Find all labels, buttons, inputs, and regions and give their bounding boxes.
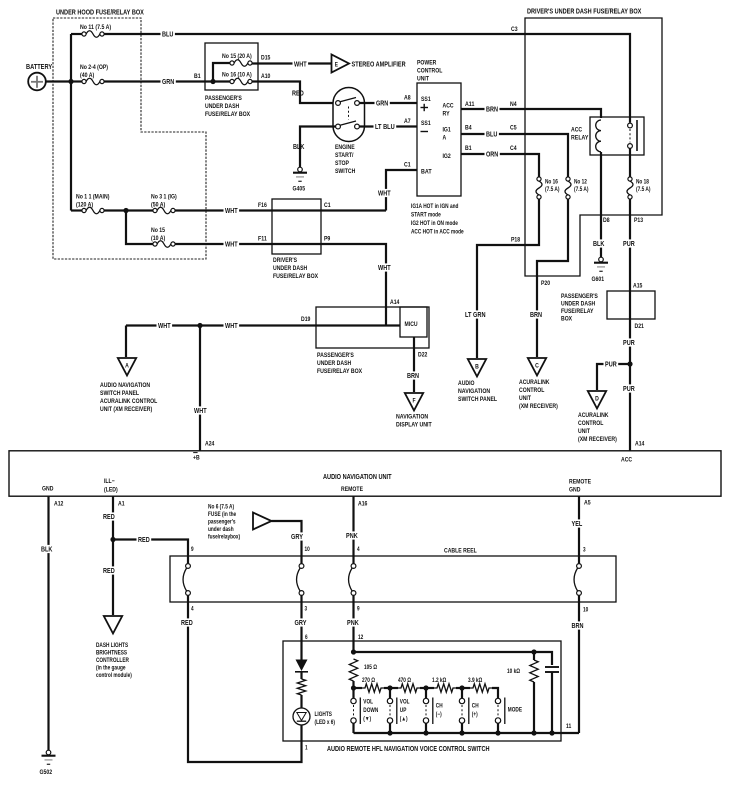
label BRN acc bbox=[485, 105, 500, 114]
svg-text:GRY: GRY bbox=[295, 620, 307, 627]
svg-text:A14: A14 bbox=[635, 441, 645, 448]
svg-text:FUSE/RELAY BOX: FUSE/RELAY BOX bbox=[273, 273, 319, 280]
cable reel connector pin 9-4 bbox=[183, 556, 190, 602]
off-page connector F bbox=[405, 393, 423, 411]
svg-text:UNIT: UNIT bbox=[578, 428, 590, 435]
wire junction up to fuse No 15 (20A) bbox=[213, 63, 230, 82]
ground G502 bbox=[40, 750, 56, 776]
svg-text:FUSE/RELAY: FUSE/RELAY bbox=[561, 308, 594, 315]
svg-text:A15: A15 bbox=[633, 283, 643, 290]
node PUR junction bbox=[627, 361, 632, 366]
wire relay coil to G601 bbox=[600, 152, 602, 257]
off-page connector A bbox=[118, 358, 136, 376]
wire BRN cable reel to switch box bbox=[578, 602, 580, 733]
wire RED A10 to engine switch bbox=[252, 82, 336, 104]
svg-text:MODE: MODE bbox=[508, 708, 522, 714]
label navigation display unit bbox=[396, 414, 432, 429]
wire YEL A5 to cable reel pin 3 bbox=[578, 496, 580, 556]
label pin 12 bbox=[358, 635, 364, 641]
svg-text:C4: C4 bbox=[510, 145, 517, 152]
label WHT left bbox=[157, 321, 173, 330]
svg-text:P18: P18 bbox=[511, 237, 520, 244]
label AUDIO NAVIGATION UNIT bbox=[323, 474, 392, 481]
pin ACC RY bbox=[443, 103, 454, 118]
resistor R 10 kohm bbox=[507, 660, 538, 682]
pin SS1 - bbox=[421, 120, 431, 132]
svg-text:WHT: WHT bbox=[225, 242, 238, 249]
label RED branch bbox=[137, 535, 152, 544]
label RED a1 lower bbox=[102, 566, 117, 575]
svg-text:SS1: SS1 bbox=[421, 120, 431, 127]
svg-text:D8: D8 bbox=[603, 217, 610, 224]
svg-text:G601: G601 bbox=[592, 276, 605, 283]
svg-text:(−): (−) bbox=[436, 712, 442, 718]
label D21 bbox=[635, 323, 645, 330]
switch CH minus bbox=[423, 698, 442, 725]
svg-text:10: 10 bbox=[305, 547, 311, 553]
label REMOTE bbox=[341, 486, 364, 493]
svg-text:D19: D19 bbox=[301, 316, 311, 323]
svg-text:SWITCH PANEL: SWITCH PANEL bbox=[100, 390, 139, 397]
svg-text:(▲): (▲) bbox=[400, 717, 408, 723]
svg-text:(7.5 A): (7.5 A) bbox=[574, 187, 589, 193]
svg-text:UNDER DASH: UNDER DASH bbox=[205, 103, 239, 110]
svg-text:NAVIGATION: NAVIGATION bbox=[458, 388, 490, 395]
wire junction down to fuse No 15 bbox=[126, 211, 153, 245]
svg-text:PUR: PUR bbox=[623, 340, 635, 347]
wire bus to fuse No 2-4 bbox=[71, 80, 82, 82]
svg-text:A5: A5 bbox=[584, 500, 591, 507]
label WHT F16 row bbox=[224, 206, 240, 215]
svg-text:10 kΩ: 10 kΩ bbox=[507, 669, 520, 675]
svg-text:No 1 1 (MAIN): No 1 1 (MAIN) bbox=[76, 194, 109, 201]
svg-text:A14: A14 bbox=[390, 299, 400, 306]
wire PUR branch to connector D bbox=[597, 364, 630, 390]
wire relay contact to fuse No 18 bbox=[629, 149, 631, 178]
wire ladder n1 stub bbox=[354, 688, 363, 699]
relay contact bar bbox=[636, 120, 638, 151]
svg-text:MICU: MICU bbox=[405, 321, 418, 328]
node WHT junction micu bbox=[0, 0, 1, 1]
svg-text:(10 A): (10 A) bbox=[151, 235, 165, 242]
label P13 bbox=[634, 217, 643, 224]
svg-text:(LED x 6): (LED x 6) bbox=[315, 720, 336, 726]
svg-text:SWITCH: SWITCH bbox=[335, 168, 356, 175]
svg-text:F16: F16 bbox=[258, 202, 267, 209]
svg-text:UP: UP bbox=[400, 708, 407, 714]
svg-text:FUSE/RELAY BOX: FUSE/RELAY BOX bbox=[205, 111, 251, 118]
engine start/stop switch body bbox=[333, 88, 365, 142]
svg-text:ACC: ACC bbox=[443, 103, 454, 110]
svg-text:UNDER DASH: UNDER DASH bbox=[273, 265, 307, 272]
svg-text:BATTERY: BATTERY bbox=[26, 64, 52, 71]
svg-text:A11: A11 bbox=[465, 101, 475, 108]
node bus dots bbox=[387, 730, 554, 735]
svg-text:RELAY: RELAY bbox=[571, 135, 589, 142]
wire WHT to F11 bbox=[175, 243, 272, 245]
wire LT BLU switch to PCU SS1- bbox=[360, 125, 418, 127]
label audio navigation switch panel A bbox=[100, 382, 157, 413]
switch contact top right bbox=[355, 101, 360, 106]
label +B bbox=[193, 453, 200, 462]
switch blade bottom bbox=[340, 121, 356, 125]
wire ORN B1 to fuse No 16 bbox=[461, 154, 539, 177]
svg-text:AUDIO REMOTE HFL NAVIGATION VO: AUDIO REMOTE HFL NAVIGATION VOICE CONTRO… bbox=[327, 746, 490, 753]
svg-text:VOL: VOL bbox=[400, 700, 410, 706]
svg-text:ACC HOT in ACC mode: ACC HOT in ACC mode bbox=[411, 230, 464, 236]
svg-text:WHT: WHT bbox=[378, 265, 391, 272]
label PUR a14 bbox=[622, 384, 637, 393]
label pin 9 top bbox=[191, 547, 194, 553]
passenger's under dash box A15 bbox=[607, 291, 655, 319]
wire switch returns bbox=[354, 723, 499, 733]
wire bus to fuse MAIN bbox=[71, 209, 82, 211]
svg-text:ORN: ORN bbox=[486, 152, 498, 159]
svg-text:FUSE/RELAY BOX: FUSE/RELAY BOX bbox=[317, 368, 363, 375]
label audio navigation switch panel B bbox=[458, 380, 497, 403]
label C1 pcu bbox=[404, 162, 411, 169]
audio remote voice control switch box bbox=[283, 641, 561, 741]
label A8 bbox=[404, 95, 411, 102]
audio navigation unit box bbox=[9, 451, 721, 496]
relay contact dashed bbox=[629, 129, 631, 143]
svg-text:C1: C1 bbox=[404, 162, 411, 169]
label A24 bbox=[205, 441, 215, 448]
wire ladder n2 bbox=[384, 688, 398, 699]
svg-text:RY: RY bbox=[443, 111, 451, 118]
svg-text:STEREO AMPLIFIER: STEREO AMPLIFIER bbox=[352, 62, 406, 69]
switch VOL UP bbox=[387, 698, 409, 725]
svg-text:IG2 HOT in ON mode: IG2 HOT in ON mode bbox=[411, 221, 458, 227]
label pin 6 bbox=[305, 635, 308, 641]
label driver box middle bbox=[273, 257, 319, 280]
svg-text:LIGHTS: LIGHTS bbox=[315, 712, 332, 718]
label A5 bbox=[584, 500, 591, 507]
wire capacitor lead bbox=[551, 672, 553, 733]
svg-text:POWER: POWER bbox=[417, 60, 437, 67]
svg-text:P9: P9 bbox=[324, 236, 331, 243]
label PUR d21 bbox=[622, 338, 637, 347]
node ladder n4 bbox=[459, 685, 464, 690]
svg-text:START mode: START mode bbox=[411, 213, 441, 219]
svg-text:(LED): (LED) bbox=[104, 487, 118, 494]
svg-text:12: 12 bbox=[358, 635, 364, 641]
svg-text:C: C bbox=[535, 363, 539, 370]
svg-text:A24: A24 bbox=[205, 441, 215, 448]
svg-text:GRN: GRN bbox=[162, 79, 174, 86]
wire GRN switch to PCU SS1+ bbox=[360, 102, 418, 104]
label A7 bbox=[404, 118, 411, 125]
wire PNK A16 to cable reel pin 4 bbox=[352, 496, 354, 556]
svg-text:D: D bbox=[595, 396, 599, 403]
wire RED A1 to dash lights controller bbox=[112, 496, 114, 615]
svg-text:ACURALINK: ACURALINK bbox=[578, 412, 609, 419]
led LIGHTS (LED x 6) bbox=[293, 708, 310, 725]
svg-text:UNDER HOOD FUSE/RELAY BOX: UNDER HOOD FUSE/RELAY BOX bbox=[56, 10, 144, 17]
label UNDER HOOD FUSE/RELAY BOX bbox=[56, 10, 144, 17]
wire GRY fuse No 6 to cable reel pin 10 bbox=[272, 521, 302, 556]
wire LED cathode bbox=[300, 695, 302, 708]
label acuralink control unit C bbox=[519, 379, 558, 410]
resistor R 3.9 kohm bbox=[468, 678, 492, 692]
svg-text:WHT: WHT bbox=[158, 323, 171, 330]
svg-text:CH: CH bbox=[436, 704, 443, 710]
node ladder n3 bbox=[423, 685, 428, 690]
svg-text:under dash: under dash bbox=[208, 527, 234, 533]
svg-text:A16: A16 bbox=[358, 501, 368, 508]
svg-text:A7: A7 bbox=[404, 118, 411, 125]
wire ladder n4 bbox=[456, 688, 470, 699]
label A16 bbox=[358, 501, 368, 508]
label RED bbox=[292, 91, 304, 98]
svg-text:LT GRN: LT GRN bbox=[465, 312, 486, 319]
wire BLU fuse No 11 to ACC relay bbox=[104, 34, 630, 123]
svg-text:BRN: BRN bbox=[572, 623, 584, 630]
svg-text:3.9 kΩ: 3.9 kΩ bbox=[468, 678, 482, 684]
svg-text:470 Ω: 470 Ω bbox=[398, 678, 411, 684]
svg-text:BLK: BLK bbox=[593, 241, 604, 248]
svg-text:ACC: ACC bbox=[621, 457, 632, 464]
svg-text:VOL: VOL bbox=[363, 700, 373, 706]
label PNK lower bbox=[346, 618, 361, 627]
wire battery to bus bbox=[45, 80, 71, 82]
node fuse junction bbox=[123, 208, 128, 213]
svg-text:D22: D22 bbox=[418, 352, 428, 359]
label pin 10 bottom bbox=[583, 608, 589, 614]
label PUR branch bbox=[604, 360, 619, 369]
wire PUR fuse No 18 to A15 bbox=[629, 199, 631, 291]
wire WHT to F16 bbox=[175, 209, 272, 211]
svg-text:A: A bbox=[125, 363, 129, 370]
svg-text:C3: C3 bbox=[511, 26, 518, 33]
svg-text:1.2 kΩ: 1.2 kΩ bbox=[432, 678, 446, 684]
svg-text:WHT: WHT bbox=[225, 208, 238, 215]
label P9 bbox=[324, 236, 331, 243]
svg-text:YEL: YEL bbox=[572, 521, 583, 528]
label BLK g601 bbox=[592, 239, 606, 248]
svg-text:CABLE REEL: CABLE REEL bbox=[444, 548, 477, 555]
svg-text:(50 A): (50 A) bbox=[151, 202, 165, 209]
cable reel connector pin 10-3 bbox=[297, 556, 304, 602]
label ILL- (LED) bbox=[104, 478, 118, 494]
pin IG2 bbox=[443, 153, 452, 160]
svg-text:(XM RECEIVER): (XM RECEIVER) bbox=[578, 436, 617, 443]
label B1 bbox=[194, 73, 201, 80]
svg-text:11: 11 bbox=[566, 724, 572, 730]
svg-text:GND: GND bbox=[42, 486, 54, 493]
label C1 box bbox=[324, 202, 331, 209]
svg-text:BLK: BLK bbox=[41, 547, 52, 554]
wire bottom bus bbox=[354, 732, 580, 734]
label YEL bbox=[570, 519, 584, 528]
svg-text:PUR: PUR bbox=[623, 241, 635, 248]
fuse No 18 (7.5 A) bbox=[627, 177, 651, 199]
label acuralink control unit D bbox=[578, 412, 617, 443]
svg-text:A10: A10 bbox=[261, 73, 271, 80]
label dash lights brightness controller bbox=[96, 643, 132, 679]
svg-text:UNDER DASH: UNDER DASH bbox=[561, 301, 595, 308]
label GND bbox=[42, 486, 54, 493]
label P18 bbox=[511, 237, 520, 244]
svg-text:NAVIGATION: NAVIGATION bbox=[396, 414, 428, 421]
switch blade top bbox=[340, 98, 356, 102]
fuse No 15 (20 A) bbox=[222, 53, 252, 66]
wire WHT C1 row bbox=[272, 209, 386, 211]
label pin 4 top bbox=[357, 547, 360, 553]
wire PNK top bus bbox=[354, 652, 553, 665]
svg-text:C5: C5 bbox=[510, 125, 517, 132]
label RED a1 bbox=[102, 512, 117, 521]
svg-text:DISPLAY UNIT: DISPLAY UNIT bbox=[396, 422, 432, 429]
driver's under dash fuse/relay box (middle) bbox=[272, 199, 321, 254]
label P20 bbox=[541, 280, 550, 287]
svg-text:(7.5 A): (7.5 A) bbox=[636, 187, 651, 193]
svg-text:BRN: BRN bbox=[486, 107, 498, 114]
svg-text:WHT: WHT bbox=[194, 408, 207, 415]
wire 10k leads bbox=[533, 652, 535, 733]
diode D1 bbox=[295, 660, 308, 672]
svg-text:PASSENGER'S: PASSENGER'S bbox=[205, 95, 242, 102]
svg-text:E: E bbox=[335, 63, 338, 69]
switch link dashed bbox=[348, 107, 350, 120]
svg-text:WHT: WHT bbox=[294, 61, 307, 68]
wire LED anode bbox=[300, 672, 302, 679]
svg-text:No 18: No 18 bbox=[636, 180, 649, 186]
wire RED cable reel to LED return bbox=[188, 602, 302, 762]
label pin 4 bottom bbox=[191, 607, 194, 613]
svg-text:REMOTE: REMOTE bbox=[569, 479, 592, 486]
label MICU bbox=[405, 321, 418, 328]
label RED lower bbox=[180, 618, 195, 627]
svg-text:UNIT: UNIT bbox=[417, 76, 429, 83]
svg-text:No 15: No 15 bbox=[151, 227, 165, 234]
svg-text:No 16: No 16 bbox=[545, 180, 558, 186]
svg-text:PNK: PNK bbox=[347, 620, 359, 627]
wire WHT P9 to A14 bbox=[272, 244, 386, 326]
svg-text:BRN: BRN bbox=[530, 312, 542, 319]
switch contact bottom right bbox=[355, 124, 360, 129]
driver's under dash fuse/relay box (top right) bbox=[525, 18, 662, 276]
switch CH plus bbox=[459, 698, 478, 725]
svg-text:UNIT: UNIT bbox=[519, 395, 531, 402]
label A1 bbox=[118, 501, 125, 508]
wire B1 junction to fuse No 16 bbox=[213, 80, 230, 82]
label WHT bat bbox=[377, 189, 393, 198]
svg-text:BRIGHTNESS: BRIGHTNESS bbox=[96, 651, 127, 657]
resistor R 1.2 kohm bbox=[432, 678, 456, 692]
svg-text:ACC: ACC bbox=[571, 127, 582, 134]
wire RED to cable reel pin 9 bbox=[113, 540, 188, 557]
svg-text:WHT: WHT bbox=[225, 323, 238, 330]
off-page connector B bbox=[468, 359, 486, 377]
passenger's under dash fuse/relay box (top) bbox=[205, 43, 258, 90]
label F16 bbox=[258, 202, 267, 209]
svg-text:fuse/relaybox): fuse/relaybox) bbox=[208, 535, 240, 541]
wire PUR A15 to audio navigation unit bbox=[629, 291, 631, 451]
label passenger box top bbox=[205, 95, 251, 118]
node WHT junction a24 bbox=[197, 323, 202, 328]
fuse No 15 (10 A) bbox=[151, 227, 175, 247]
label PUR p13 bbox=[622, 239, 637, 248]
svg-text:D21: D21 bbox=[635, 323, 645, 330]
svg-text:B4: B4 bbox=[465, 125, 472, 132]
wire GRY cable reel to switch box bbox=[300, 602, 302, 660]
label REMOTE GND bbox=[569, 479, 592, 494]
svg-text:PUR: PUR bbox=[623, 386, 635, 393]
svg-text:PNK: PNK bbox=[346, 533, 358, 540]
svg-text:SS1: SS1 bbox=[421, 96, 431, 103]
svg-text:P20: P20 bbox=[541, 280, 550, 287]
note IG1A HOT bbox=[411, 204, 464, 236]
capacitor C1 filter bbox=[545, 667, 559, 672]
svg-text:No 16 (10 A): No 16 (10 A) bbox=[222, 72, 252, 79]
wire LT GRN fuse No 16 to connector B bbox=[477, 199, 539, 358]
ground G601 bbox=[592, 257, 609, 283]
relay coil bbox=[596, 120, 601, 152]
dash lights brightness controller connector bbox=[104, 616, 122, 634]
svg-text:A: A bbox=[443, 135, 447, 142]
passenger's under dash box (MICU) bbox=[316, 307, 429, 348]
svg-text:G502: G502 bbox=[40, 769, 53, 776]
svg-text:PASSENGER'S: PASSENGER'S bbox=[561, 293, 598, 300]
svg-text:GND: GND bbox=[569, 487, 581, 494]
label B1 pcu bbox=[465, 145, 472, 152]
label CABLE REEL bbox=[444, 548, 477, 555]
label A10 bbox=[261, 73, 271, 80]
label AUDIO REMOTE HFL NAVIGATION VOICE CONTROL SWITCH bbox=[327, 746, 490, 753]
label B4 bbox=[465, 125, 472, 132]
svg-text:P13: P13 bbox=[634, 217, 643, 224]
wire BLK A12 to G502 bbox=[47, 496, 49, 750]
svg-text:BAT: BAT bbox=[421, 169, 432, 176]
svg-text:SWITCH PANEL: SWITCH PANEL bbox=[458, 396, 497, 403]
svg-text:WHT: WHT bbox=[378, 191, 391, 198]
svg-text:ACURALINK CONTROL: ACURALINK CONTROL bbox=[100, 398, 157, 405]
wire BRN A11 to relay coil bbox=[461, 109, 601, 118]
label A14 micu bbox=[390, 299, 400, 306]
svg-text:UNIT (XM RECEIVER): UNIT (XM RECEIVER) bbox=[100, 406, 152, 413]
label BLU b4 bbox=[485, 130, 499, 139]
svg-text:C1: C1 bbox=[324, 202, 331, 209]
svg-text:+B: +B bbox=[193, 455, 200, 462]
svg-text:G405: G405 bbox=[293, 186, 306, 193]
wire BRN fuse No 12 to connector C bbox=[537, 199, 568, 357]
svg-text:B1: B1 bbox=[465, 145, 472, 152]
svg-text:AUDIO NAVIGATION: AUDIO NAVIGATION bbox=[100, 382, 150, 389]
svg-text:GRY: GRY bbox=[291, 534, 303, 541]
switch VOL DOWN bbox=[351, 698, 379, 725]
note fuse No 6 bbox=[208, 505, 240, 541]
svg-text:No 15 (20 A): No 15 (20 A) bbox=[222, 53, 252, 60]
label GRY upper bbox=[290, 532, 305, 541]
svg-text:BRN: BRN bbox=[407, 373, 419, 380]
label DRIVER'S UNDER DASH FUSE/RELAY BOX bbox=[527, 9, 642, 16]
svg-text:B1: B1 bbox=[194, 73, 201, 80]
switch contact bottom left bbox=[336, 124, 341, 129]
wire 105 to ladder bbox=[352, 681, 354, 688]
battery BATTERY bbox=[26, 64, 52, 90]
label F11 bbox=[258, 236, 267, 243]
label engine start/stop switch bbox=[335, 144, 356, 175]
off-page connector D bbox=[588, 391, 606, 409]
svg-text:PASSENGER'S: PASSENGER'S bbox=[317, 352, 354, 359]
svg-text:IG1: IG1 bbox=[443, 127, 452, 134]
label BRN lower bbox=[570, 621, 585, 630]
svg-text:CONTROL: CONTROL bbox=[578, 420, 603, 427]
label pin 3 bottom bbox=[305, 607, 308, 613]
svg-text:DOWN: DOWN bbox=[363, 708, 378, 714]
label pin 3 top bbox=[583, 548, 586, 554]
